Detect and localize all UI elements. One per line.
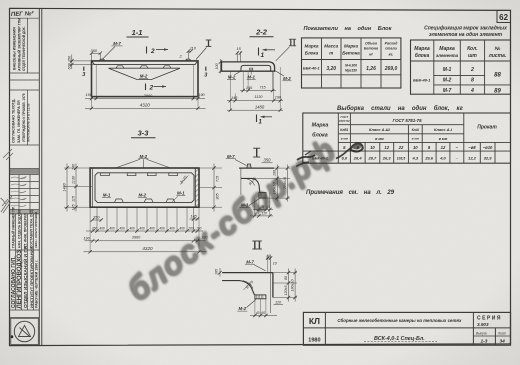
section marker 3 right [205,67,207,71]
detail II label М-7 [246,259,254,264]
svg-text:28,4: 28,4 [353,155,363,160]
svg-text:Объем: Объем [365,42,377,46]
dim 110 top right [190,46,197,51]
svg-text:М-1: М-1 [443,67,452,73]
М-7 plate bumps on beam top [100,59,191,61]
detail II foot plate М-2 [255,295,266,299]
svg-text:26,3: 26,3 [382,155,392,160]
3-3 dim 350 [93,215,100,219]
2-2 dim row 145/715 [240,90,276,92]
table 2 headers [414,46,506,59]
svg-text:400: 400 [99,226,105,230]
detail I bottom dims [253,209,273,211]
svg-text:12: 12 [384,145,389,150]
svg-text:ББК-40-1: ББК-40-1 [303,67,320,71]
detail II top dims М and 10 [267,254,270,258]
svg-text:1984 г. ОРЕЛ ГИПРОВОД: 1984 г. ОРЕЛ ГИПРОВОД [34,211,38,248]
svg-text:1130: 1130 [254,95,263,99]
detail II R75 note [245,279,255,289]
section 2-2 slab outline [222,62,275,71]
svg-text:Примечания см. на л. 29: Примечания см. на л. 29 [306,190,395,196]
2-2 extension lines [229,72,231,111]
table 2 title Спецификация [424,25,507,39]
2-2 left rotated dim 100 [220,59,222,74]
svg-text:Марка: Марка [344,44,358,49]
svg-text:190: 190 [198,93,205,97]
svg-text:шт: шт [468,53,477,59]
svg-text:4,0: 4,0 [439,155,446,160]
svg-text:М-7: М-7 [246,259,254,264]
svg-text:стали: стали [385,47,397,51]
diagonal note b=20 [180,175,189,185]
table 3 title Выборка стали [337,105,464,112]
svg-text:400: 400 [139,226,145,230]
svg-text:32,9: 32,9 [484,155,493,160]
svg-text:М-2: М-2 [239,306,247,311]
label М-2 left of 2-2 [228,75,236,80]
1-1 bottom dim line 190/3960/190 [85,98,205,100]
svg-text:ВНЕСЕНЫ ИЗМЕНЕНИЯ: ВНЕСЕНЫ ИЗМЕНЕНИЯ [13,27,17,70]
title block КЛ / 1980 [308,316,320,344]
1-1 bottom dim line 4320 [85,107,206,109]
svg-text:М-7: М-7 [113,41,121,46]
detail II left rotated dim 105 [215,269,219,275]
section 1-1 trough М-2 [109,68,181,79]
svg-text:2-2: 2-2 [255,28,268,37]
node symbol II with leader [290,40,292,46]
svg-text:350: 350 [264,158,272,163]
dim 15 top of 2-2 [236,47,241,51]
svg-text:Лист: Лист [497,332,507,336]
stamp ink dot [10,335,13,338]
svg-text:115: 115 [72,195,76,202]
3-3 leader lines below panel [97,207,194,231]
svg-text:29,6: 29,6 [424,155,434,160]
title block series [476,316,507,345]
svg-text:8: 8 [471,78,474,84]
cut symbol I with leader [208,40,210,46]
svg-text:М-2: М-2 [140,154,148,159]
svg-text:ПРОТОКОЛ № 14 ОТ 12.05: ПРОТОКОЛ № 14 ОТ 12.05 [27,103,31,142]
svg-text:Прокат: Прокат [477,125,497,131]
svg-text:–ø10: –ø10 [483,145,493,150]
svg-text:КлАІ: КлАІ [412,128,419,132]
label М-7 with leader [113,41,121,46]
svg-text:Марка: Марка [312,123,329,129]
section marker 3 left [83,67,85,71]
svg-text:400: 400 [129,226,135,230]
watermark blocks-sbor diagonal [120,130,344,309]
svg-text:Марка: Марка [439,46,455,52]
detail II node symbol [254,242,256,249]
svg-text:КлВ1: КлВ1 [340,128,348,132]
section 1-1 title [132,28,143,37]
table 1 title Показатели на один Блок [304,26,393,32]
table 3 diameter row [343,145,493,150]
svg-text:110: 110 [275,300,282,304]
svg-text:Класс А-Ш: Класс А-Ш [369,127,390,132]
ink blots over table 3 [296,143,363,166]
svg-text:Показатели на один Блок: Показатели на один Блок [304,26,393,32]
svg-text:ø мм: ø мм [439,137,448,141]
svg-text:ББК-40-1: ББК-40-1 [413,78,431,83]
svg-text:10: 10 [413,145,418,150]
svg-text:1480: 1480 [255,105,265,110]
page number box 62 [497,10,511,22]
svg-text:1480: 1480 [63,182,67,191]
svg-text:–ø8: –ø8 [468,145,476,150]
svg-text:блока: блока [415,52,430,59]
svg-text:Мрз150: Мрз150 [345,69,357,73]
svg-text:1,26: 1,26 [366,66,376,72]
detail I outline [239,167,274,169]
svg-text:10: 10 [273,261,277,265]
svg-text:4320: 4320 [142,246,153,251]
svg-text:400: 400 [159,226,165,230]
section marker 2 top [146,47,148,54]
title block project name [337,318,462,342]
label М-2 above 3-3 with fan leaders [140,154,148,159]
svg-text:145: 145 [72,203,76,210]
svg-text:УТВЕРЖДЕНО К ПРОИЗВ. 1979: УТВЕРЖДЕНО К ПРОИЗВ. 1979 [22,93,26,142]
svg-text:62: 62 [499,13,508,22]
svg-text:листа.: листа. [488,53,507,59]
section marker 2 bottom [145,84,147,91]
svg-text:Кол.: Кол. [467,46,477,52]
title strip right border (double) [38,8,40,345]
stamp circle [14,321,34,341]
svg-text:СОСТАВИЛ ТЕХН. ОТД.: СОСТАВИЛ ТЕХН. ОТД. [29,209,33,248]
svg-text:кг.: кг. [389,53,394,57]
svg-text:элемента: элемента [436,53,459,58]
table 1 headers [305,42,399,57]
svg-text:НАЧ. ОТДЕЛА ВОДХОЗ: НАЧ. ОТДЕЛА ВОДХОЗ [17,210,21,248]
svg-text:Класс А-І: Класс А-І [434,127,453,132]
section marker 1 (2-2) [258,48,260,56]
table 3 headers [312,115,498,141]
section marker 1 bottom (2-2) [256,115,258,123]
svg-text:3960: 3960 [144,94,153,98]
svg-text:ИНСТИТУТ ПРОЕКТИРОВАНИЯ: ИНСТИТУТ ПРОЕКТИРОВАНИЯ [29,246,34,308]
3-3 dim 145 bottom right [190,214,197,218]
section 1-1 beam outline [92,61,199,97]
detail I right dim chains [274,167,290,169]
strip institute block (bold) [11,245,39,308]
svg-text:3,20: 3,20 [326,66,336,72]
svg-text:М-2: М-2 [283,76,291,81]
svg-text:600: 600 [68,62,72,69]
svg-text:305: 305 [216,192,220,199]
svg-text:12: 12 [441,145,446,150]
svg-text:1-1: 1-1 [132,28,143,37]
svg-text:400: 400 [179,226,185,230]
label М-1 center of 2-2 [247,75,255,80]
table 1 data row [303,64,397,73]
3-3 top insert plates [101,173,178,176]
svg-text:80: 80 [284,276,288,280]
svg-text:элементов на один элемент: элементов на один элемент [429,32,503,38]
table 1 frame [302,38,401,88]
svg-text:Расход: Расход [385,42,398,46]
dim 350 top left [91,48,98,53]
svg-text:Сборные железобетонные камеры: Сборные железобетонные камеры на тепловы… [337,318,462,323]
svg-text:715: 715 [259,85,266,89]
3-3 dim line 190/3960/190 [85,240,206,242]
svg-text:190: 190 [86,93,93,97]
svg-text:ПЕГ №²: ПЕГ №² [11,10,35,18]
svg-text:Спецификация марок закладных: Спецификация марок закладных [424,25,507,32]
svg-text:150: 150 [68,55,72,62]
svg-text:2.: 2. [179,55,183,59]
svg-text:400: 400 [119,226,125,230]
svg-text:103,5: 103,5 [397,156,406,160]
strip dark band [10,169,39,174]
svg-text:ø мм: ø мм [412,137,420,141]
svg-text:1130: 1130 [72,175,76,184]
svg-text:Блока: Блока [305,51,319,56]
3-3 left dim chains [64,167,90,169]
detail I label М-7 [227,154,235,159]
svg-text:120±5: 120±5 [284,286,288,296]
stamp box [11,318,39,344]
svg-text:СТ. ИНЖ. ПРОВЕРИЛ: СТ. ИНЖ. ПРОВЕРИЛ [23,213,27,248]
svg-text:60: 60 [261,311,265,315]
svg-text:Выпуск: Выпуск [476,332,487,336]
detail II bottom dims 40/60 [250,315,277,317]
svg-text:22: 22 [398,145,404,150]
labels inside 3-3 [103,191,185,198]
detail I R75 note [248,176,257,186]
detail II outline [222,272,273,274]
label М-2 in trough [140,74,148,79]
svg-text:190: 190 [83,236,90,240]
svg-text:т: т [329,51,333,56]
svg-text:110: 110 [190,46,197,51]
svg-text:3.903: 3.903 [477,322,489,327]
svg-text:260: 260 [91,226,98,230]
svg-text:М-2: М-2 [228,75,236,80]
svg-text:2: 2 [149,85,154,92]
strip dark band ОБСЛЕДОВАНО [10,210,39,214]
svg-text:40: 40 [256,311,260,315]
3-3 bottom insert plates [115,199,175,202]
left dim chain of 1-1 [70,60,92,62]
title block frame [303,312,510,345]
note Примечания см. на л. 29 [306,190,395,196]
detail I cut symbol [256,149,258,157]
table 3 frame [303,113,511,163]
svg-text:350: 350 [91,48,98,53]
section 2-2 title [255,28,268,37]
detail I plate on top [247,164,251,168]
svg-text:ø мм: ø мм [341,137,349,141]
2-2 dim row 145/1130/190 [227,100,283,102]
table 2 frame [411,40,511,94]
svg-text:М-4,300: М-4,300 [345,64,357,68]
3-3 right dim chain 715/305 [199,167,222,169]
svg-text:М-1: М-1 [103,193,111,198]
svg-text:Марка: Марка [414,46,430,52]
svg-text:РАБОЧИЕ ЧЕРТЕЖИ 1980 г.: РАБОЧИЕ ЧЕРТЕЖИ 1980 г. [35,260,39,308]
svg-text:СОГЛАСОВАНО ГИП.: СОГЛАСОВАНО ГИП. [11,256,17,308]
detail I foot plate М-1 [259,193,266,199]
strip cell dividers [10,18,40,317]
svg-text:ГОСТ 5781-75: ГОСТ 5781-75 [392,118,422,123]
svg-text:№: № [495,46,501,52]
svg-text:М-1: М-1 [247,75,255,80]
section 1-1 insert bumps [116,66,171,68]
svg-text:180±10: 180±10 [291,280,295,292]
section 3-3 title [138,129,150,138]
section 3-3 panel outer rect [90,168,199,207]
svg-text:89: 89 [494,88,501,94]
3-3 right hatched band [194,168,196,207]
section 2-2 rib hump [241,65,271,71]
3-3 dim line 4320 [84,251,207,253]
svg-text:3960: 3960 [132,236,141,240]
table 2 data [413,67,501,94]
svg-text:М-7: М-7 [443,88,452,94]
svg-text:ВСК-4,0-1 Спец-Бл.: ВСК-4,0-1 Спец-Бл. [374,336,425,342]
svg-text:Масса: Масса [324,44,338,49]
svg-text:Бетона: Бетона [342,51,360,56]
svg-text:Марка: Марка [305,44,319,49]
svg-text:1: 1 [261,52,265,59]
detail II right dim chains [273,272,297,274]
svg-text:М-1: М-1 [177,191,185,196]
label М-2 right of 2-2 [283,76,291,81]
svg-text:ЗАМ. ГЛ. ИНЖЕНЕРА ПР.: ЗАМ. ГЛ. ИНЖЕНЕРА ПР. [17,100,21,143]
svg-text:269,0: 269,0 [384,66,398,72]
svg-text:СЕРИЯ: СЕРИЯ [477,316,502,322]
svg-text:28,7: 28,7 [368,155,378,160]
strip signature row squiggles [11,177,27,207]
pencil scribbles left margin [1,149,14,213]
3-3 left inner edge line [91,168,93,207]
svg-text:88: 88 [494,73,501,79]
svg-text:ЛЕНГИПРОВОДХОЗ: ЛЕНГИПРОВОДХОЗ [17,250,23,309]
table 3 data row [312,155,492,160]
svg-text:140: 140 [72,163,76,170]
3-3 inner recess contour [95,173,194,203]
svg-text:145: 145 [190,214,197,218]
section 1-1 top flange inner line [92,61,198,64]
svg-text:1-3: 1-3 [481,339,488,345]
svg-text:400: 400 [149,226,155,230]
svg-text:6727-53: 6727-53 [339,119,350,123]
svg-text:100: 100 [215,62,219,69]
svg-text:ОТДЕЛ ТЕХНИЧЕСКОЙ ДОК.: ОТДЕЛ ТЕХНИЧЕСКОЙ ДОК. [22,26,26,71]
svg-text:2: 2 [470,67,474,73]
svg-text:12,2: 12,2 [468,155,477,160]
svg-text:105: 105 [215,269,219,275]
svg-text:М-7: М-7 [227,154,235,159]
2-2 dim row 1480 [227,109,283,111]
svg-text:М-2: М-2 [443,78,452,84]
svg-text:400: 400 [109,226,115,230]
svg-text:10: 10 [370,145,375,150]
svg-text:2: 2 [150,48,155,55]
svg-text:4: 4 [470,88,474,94]
svg-text:190: 190 [275,96,282,100]
svg-text:1980: 1980 [308,338,320,344]
strip rotated annotations upper [12,18,31,143]
svg-text:145: 145 [231,96,238,100]
svg-text:Выборка стали на один блок: Выборка стали на один блок, кг [337,105,464,112]
svg-text:3: 3 [82,72,85,78]
svg-text:3-3: 3-3 [138,129,150,138]
svg-text:715: 715 [216,175,220,182]
detail II dim 110 [275,300,282,304]
svg-text:Бетона: Бетона [364,47,378,51]
svg-text:КЛ: КЛ [309,316,320,326]
svg-text:СОГЛАСОВАНО ТЕХОТД.: СОГЛАСОВАНО ТЕХОТД. [12,99,16,143]
svg-text:4320: 4320 [140,103,151,108]
svg-text:34: 34 [500,339,506,345]
3-3 spacing dim line 400s [86,230,203,232]
svg-text:145: 145 [246,86,253,90]
svg-text:М-2: М-2 [140,74,148,79]
svg-text:400: 400 [169,226,175,230]
svg-text:ø мм: ø мм [375,137,384,141]
svg-text:3: 3 [204,73,207,79]
svg-text:АРХИВНЫЙ ЭКЗЕМПЛЯР ГПИ: АРХИВНЫЙ ЭКЗЕМПЛЯР ГПИ [18,18,22,71]
svg-text:М-2: М-2 [139,193,147,198]
detail II vertical ext above [267,256,269,273]
strip rotated annotations mid [12,206,39,248]
svg-text:4,3: 4,3 [412,155,419,160]
